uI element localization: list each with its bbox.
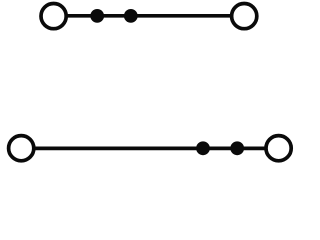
junction dot A (upper bridge tap 1) [90,9,104,23]
terminal X1.1 (upper-left screw connection point) [41,4,66,29]
lower level conductor rail: wire [29,147,271,151]
junction dot D (lower bridge tap 2) [230,141,244,155]
terminal X1.2 (upper-right screw connection point) [232,4,257,29]
terminal X2.1 (lower-left screw connection point) [9,136,34,161]
terminal X2.2 (lower-right screw connection point) [266,136,291,161]
junction dot B (upper bridge tap 2) [124,9,138,23]
junction dot C (lower bridge tap 1) [196,141,210,155]
upper level conductor rail: wire [62,14,236,18]
